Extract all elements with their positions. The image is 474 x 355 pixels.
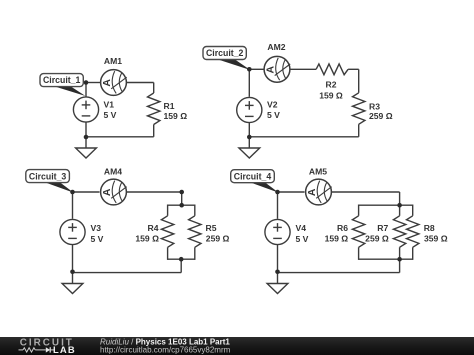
parallel top bar circuit 3: [168, 204, 195, 206]
wire AM2 to R2: [291, 68, 317, 70]
wire node to AM1: [86, 82, 100, 84]
parallel top junction dot circuit 3: [179, 203, 184, 208]
parallel bottom bar circuit 4: [359, 258, 413, 260]
bottom junction dot circuit 2: [247, 135, 252, 140]
R7 bottom lead: [399, 247, 401, 260]
ground junction dot circuit 3: [70, 270, 75, 275]
logo resistor zigzag: [23, 348, 35, 352]
bottom rail circuit 1: [86, 136, 154, 138]
logo diode: [46, 347, 50, 352]
svg-text:R3: R3: [369, 102, 380, 112]
resistor R2 (horizontal): [316, 64, 348, 75]
resistor R6: [352, 216, 364, 248]
resistor R3: [353, 93, 365, 125]
callout Circuit_4 tail: [248, 182, 279, 193]
wire node to V2 top: [248, 69, 250, 97]
ammeter AM4: [101, 179, 127, 205]
resistor R1: [148, 93, 160, 125]
bottom rail circuit 3: [73, 272, 182, 274]
R8 bottom lead: [412, 247, 414, 260]
svg-text:AM2: AM2: [267, 42, 285, 52]
resistor R7: [393, 216, 405, 248]
ammeter AM2: [264, 56, 290, 82]
callout Circuit_1 box: [40, 74, 83, 87]
wire V2 bottom to ground: [248, 123, 250, 148]
wire AM1 to R1: [127, 82, 154, 84]
parallel top junction dot circuit 4: [397, 203, 402, 208]
wire corner down to R3: [358, 69, 360, 93]
svg-text:R7: R7: [377, 223, 388, 233]
ground circuit 4: [267, 284, 288, 294]
svg-text:359 Ω: 359 Ω: [424, 234, 448, 244]
callout Circuit_2 tail: [215, 59, 250, 71]
ground circuit 2: [239, 148, 260, 158]
callout Circuit_1 tail: [52, 86, 86, 96]
voltage source V1: [73, 97, 98, 122]
wire V3 bottom to ground: [72, 245, 74, 284]
callout Circuit_3 box: [26, 170, 70, 183]
node junction dot circuit 2: [247, 67, 252, 72]
svg-text:LAB: LAB: [53, 344, 76, 355]
svg-text:159 Ω: 159 Ω: [164, 111, 188, 121]
R7 top lead: [399, 205, 401, 216]
svg-text:V1: V1: [104, 99, 115, 109]
svg-text:5 V: 5 V: [267, 110, 280, 120]
R5 top lead: [194, 205, 196, 216]
svg-text:R5: R5: [206, 223, 217, 233]
R4 bottom lead: [167, 247, 169, 260]
wire corner down to parallel top: [399, 192, 401, 205]
svg-text:R8: R8: [424, 223, 435, 233]
parallel bottom junction dot circuit 3: [179, 257, 184, 262]
svg-text:R1: R1: [164, 101, 175, 111]
R6 bottom lead: [358, 247, 360, 260]
node junction dot circuit 1: [84, 80, 89, 85]
svg-text:V2: V2: [267, 99, 278, 109]
svg-text:159 Ω: 159 Ω: [319, 91, 343, 101]
wire AM5 to corner: [332, 191, 400, 193]
svg-text:AM5: AM5: [309, 167, 327, 177]
callout Circuit_2 box: [203, 47, 246, 60]
resistor R5: [189, 216, 201, 248]
R5 bottom lead: [194, 247, 196, 260]
svg-text:159 Ω: 159 Ω: [135, 234, 159, 244]
svg-text:V3: V3: [91, 223, 102, 233]
wire R3 bottom lead: [358, 124, 360, 137]
resistor R8: [407, 216, 419, 248]
bottom junction dot circuit 1: [84, 135, 89, 140]
svg-text:5 V: 5 V: [296, 234, 309, 244]
R4 top lead: [167, 205, 169, 216]
svg-text:R6: R6: [337, 223, 348, 233]
wire node to V1 top: [85, 83, 87, 97]
bottom rail circuit 2: [249, 136, 358, 138]
svg-text:Circuit_4: Circuit_4: [234, 171, 271, 181]
ground circuit 3: [62, 284, 83, 294]
svg-text:259 Ω: 259 Ω: [206, 234, 230, 244]
svg-text:R4: R4: [148, 223, 159, 233]
svg-text:Circuit_1: Circuit_1: [43, 75, 80, 85]
wire parallel bottom to rail: [180, 259, 182, 272]
wire node to V3 top: [72, 192, 74, 219]
svg-text:http://circuitlab.com/cp7665vy: http://circuitlab.com/cp7665vy82mrm: [100, 345, 231, 354]
resistor R4: [161, 216, 173, 248]
svg-text:R2: R2: [326, 80, 337, 90]
parallel bottom junction dot circuit 4: [397, 257, 402, 262]
wire parallel bottom to rail: [399, 259, 401, 272]
R8 top lead: [412, 205, 414, 216]
wire R1 bottom lead: [153, 125, 155, 137]
wire node to AM5: [278, 191, 305, 193]
wire V4 bottom to ground: [277, 245, 279, 284]
logo wire right: [50, 349, 55, 351]
bottom rail circuit 4: [278, 272, 400, 274]
svg-text:Circuit_2: Circuit_2: [206, 48, 243, 58]
logo wire mid: [35, 349, 46, 351]
parallel top bar circuit 4: [359, 204, 413, 206]
R6 top lead: [358, 205, 360, 216]
node junction dot circuit 3: [70, 190, 75, 195]
svg-text:259 Ω: 259 Ω: [365, 234, 389, 244]
wire node to AM4: [73, 191, 100, 193]
wire R1 top lead: [153, 83, 155, 94]
logo wire line left: [19, 349, 24, 351]
svg-text:259 Ω: 259 Ω: [369, 111, 393, 121]
ground junction dot circuit 4: [275, 270, 280, 275]
voltage source V3: [60, 219, 85, 244]
node junction dot circuit 4: [275, 190, 280, 195]
wire R2 right lead to corner: [348, 68, 359, 70]
ammeter AM5: [306, 179, 332, 205]
wire node to AM2: [249, 68, 263, 70]
callout Circuit_4 box: [231, 170, 275, 183]
wire AM4 to corner: [127, 191, 182, 193]
ammeter AM1: [101, 70, 127, 96]
svg-text:5 V: 5 V: [104, 110, 117, 120]
parallel bottom bar circuit 3: [168, 258, 195, 260]
svg-text:159 Ω: 159 Ω: [325, 234, 349, 244]
svg-text:V4: V4: [296, 223, 307, 233]
svg-text:5 V: 5 V: [91, 234, 104, 244]
footer bar: [0, 337, 474, 355]
ground circuit 1: [76, 148, 97, 158]
voltage source V4: [265, 219, 290, 244]
callout Circuit_3 tail: [43, 182, 74, 193]
wire corner down to parallel top: [181, 192, 183, 205]
voltage source V2: [237, 97, 262, 122]
svg-text:Circuit_3: Circuit_3: [29, 171, 66, 181]
corner junction dot circuit 3: [179, 190, 184, 195]
svg-text:AM1: AM1: [104, 56, 122, 66]
wire node to V4 top: [277, 192, 279, 219]
wire V1 bottom to rail: [85, 123, 87, 149]
svg-text:AM4: AM4: [104, 167, 122, 177]
